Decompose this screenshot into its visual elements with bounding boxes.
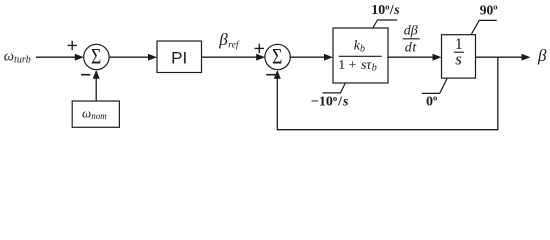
block omega_nom (72, 101, 119, 127)
block PI (157, 41, 202, 73)
node beta_ref label (218, 30, 240, 51)
block integrator 1/s (442, 35, 476, 78)
rate limit annotation -10deg/s (311, 84, 349, 110)
svg-text:β: β (537, 46, 547, 65)
position limit annotation 90deg (471, 2, 498, 35)
rate limit annotation +10deg/s (371, 1, 400, 28)
wire omega_nom to S1 (93, 70, 100, 101)
svg-text:Σ: Σ (91, 45, 101, 69)
svg-text:Σ: Σ (272, 45, 282, 69)
position limit annotation 0deg (422, 78, 448, 109)
svg-text:dt: dt (405, 41, 418, 56)
wire actuator to integrator (388, 54, 442, 61)
wire PI to summing junction S2 (202, 54, 266, 61)
wire omega_turb to summing junction S1 (36, 54, 84, 61)
wire S1 to PI block (109, 54, 157, 61)
wire feedback bottom run (277, 129, 499, 131)
node dbeta/dt label (403, 23, 420, 55)
block pitch actuator kb/(1+s*tau_b) (333, 28, 388, 83)
wire S2 to pitch actuator block (290, 54, 333, 61)
plus sign at S2 input (255, 44, 264, 53)
svg-text:PI: PI (171, 48, 187, 67)
minus sign at S1 lower input (81, 74, 90, 76)
plus sign at S1 input (68, 41, 77, 50)
svg-text:−10o/s: −10o/s (311, 93, 349, 110)
wire integrator to beta output (476, 54, 531, 61)
svg-text:dβ: dβ (404, 23, 418, 38)
node omega_turb input label (4, 49, 31, 66)
minus sign at S2 lower input (266, 74, 276, 76)
summing junction S2 (265, 44, 290, 69)
node beta output label (537, 46, 547, 65)
wire feedback from output down (497, 57, 499, 130)
wire feedback up into S2 (274, 70, 281, 130)
summing junction S1 (84, 44, 109, 69)
svg-text:s: s (455, 49, 462, 68)
